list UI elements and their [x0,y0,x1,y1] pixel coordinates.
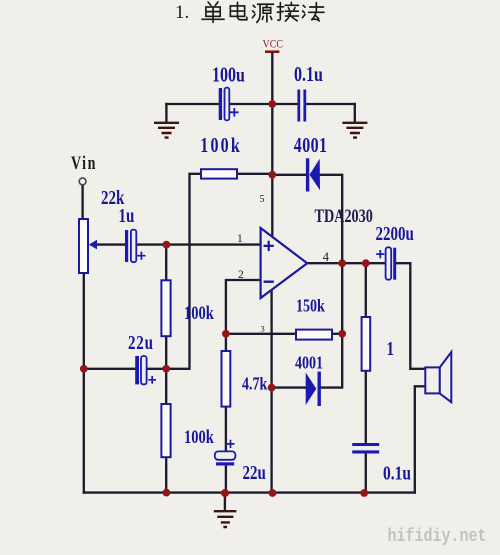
junction rail / 22u bottom / ground [221,489,229,497]
svg-text:0.1u: 0.1u [383,462,411,484]
wire 4.7k to 22u bottom [225,407,227,452]
wire 1u to node A [137,243,166,245]
svg-text:100u: 100u [212,63,245,87]
svg-text:100k: 100k [184,426,214,447]
wire left rail [83,273,85,493]
junction rail / 100k lower [163,489,171,497]
resistor 150k [296,330,332,340]
resistor 100k lower (vertical) [161,404,170,457]
svg-text:100k: 100k [200,134,242,158]
capacitor 2200u [376,247,396,279]
char 接 [277,2,298,21]
ground left [154,123,179,138]
char 电 [230,2,247,19]
wire Vin to pot [81,185,83,219]
wire 100k upper to node X [165,336,167,369]
wire pin 1 input [166,243,260,245]
wire ground drop right [354,104,356,123]
wire diode D1 left lead [272,174,306,176]
svg-text:22u: 22u [128,332,154,353]
junction node X [162,365,170,373]
wire 100k lower to rail [165,457,167,492]
wire 100k feedback left lead [166,174,201,369]
speaker LS1 [425,352,451,402]
wire 150k right lead [332,333,342,335]
svg-text:5: 5 [260,194,265,205]
junction left rail / 22u [80,365,88,373]
junction VCC / 100k / D1 [268,171,276,179]
svg-text:4001: 4001 [295,353,323,373]
wire pin 2 input [226,280,261,334]
wire bottom ground rail [84,491,415,493]
junction output / D1 branch [338,259,346,267]
resistor 100k feedback (horizontal) [201,169,237,178]
terminal Vin [79,178,86,185]
wire 2200u to speaker [397,263,426,369]
capacitor 22u bottom [215,440,236,466]
wire top rail middle segment [230,103,298,105]
wire top rail left segment [166,103,218,105]
svg-text:150k: 150k [296,296,325,316]
junction 150k / output drop [338,330,346,338]
svg-text:4: 4 [323,250,330,264]
resistor 4.7k [222,351,231,407]
wire node X to 100k lower [165,369,167,404]
diode D1 4001 [306,158,320,191]
svg-text:TDA2030: TDA2030 [315,205,373,226]
svg-text:3: 3 [261,324,265,334]
svg-text:4001: 4001 [294,134,328,158]
wire 0.1u to rail [365,454,367,494]
wire 22u bottom to rail [225,466,227,494]
net VCC label [263,38,284,53]
wire 1 ohm to 0.1u [365,371,367,443]
wire diode D1 right lead with drop to output [320,175,342,263]
ground bottom [214,511,237,527]
wire top rail right segment [306,103,355,105]
wire ground stub bottom [224,493,226,510]
capacitor 22u left [135,356,156,384]
wire left rail to 22u [84,368,135,370]
resistor 100k upper (vertical) [161,280,170,336]
junction rail / pin3 [269,489,277,497]
wire ground drop left [165,104,167,123]
capacitor 100u [219,88,239,121]
wire pot wiper to 1u [97,243,125,245]
svg-text:VCC: VCC [263,38,284,51]
svg-text:100k: 100k [184,302,214,323]
wire 100k feedback right lead [237,173,272,175]
svg-text:1.: 1. [175,2,189,23]
VCC terminal bar [265,50,279,53]
junction output / 1 ohm branch [362,259,370,267]
svg-text:0.1u: 0.1u [294,63,323,87]
junction rail / 0.1u [360,489,368,497]
junction VCC rail [268,100,276,108]
junction node A pin1 [163,241,171,249]
wire 150k left lead [226,333,296,335]
svg-text:1: 1 [387,338,394,359]
resistor 1 ohm [362,317,371,371]
svg-text:22u: 22u [243,462,267,483]
wire pin 3 down to ground rail [270,290,272,494]
wire output to 1 ohm [365,263,367,317]
junction pin3 / D2 [268,384,276,392]
char 单 [202,2,224,22]
wire pin2 node to 4.7k [225,334,227,351]
capacitor 0.1u bottom [352,443,379,454]
capacitor 1u [125,230,146,263]
svg-text:2: 2 [238,269,244,281]
wire diode D2 right lead up to output [321,263,342,387]
wire speaker return [415,386,426,492]
capacitor 0.1u top [297,90,306,122]
value labels [101,63,414,484]
svg-text:4.7k: 4.7k [242,374,267,394]
potentiometer 22k [79,219,97,273]
svg-text:hifidiy.net: hifidiy.net [388,527,487,548]
wire diode D2 left lead [272,386,306,388]
pin numbers [237,194,330,334]
svg-text:Vin: Vin [71,152,97,173]
char 法 [302,3,324,21]
svg-text:1: 1 [237,233,243,245]
svg-text:1u: 1u [119,205,135,226]
wire output to 2200u [307,262,386,264]
ground right [342,123,367,138]
char 源 [252,4,273,22]
wire VCC vertical to op-amp pin 5 [271,53,273,237]
diode D2 4001 [306,372,321,406]
wire 22u to node X [147,368,166,370]
wire node A to 100k upper [165,245,167,281]
svg-text:2200u: 2200u [376,223,415,244]
op-amp U1 TDA2030 [261,228,308,298]
junction pin2 / 150k / 4.7k [222,330,230,338]
title 1.单电源接法 [175,2,324,23]
